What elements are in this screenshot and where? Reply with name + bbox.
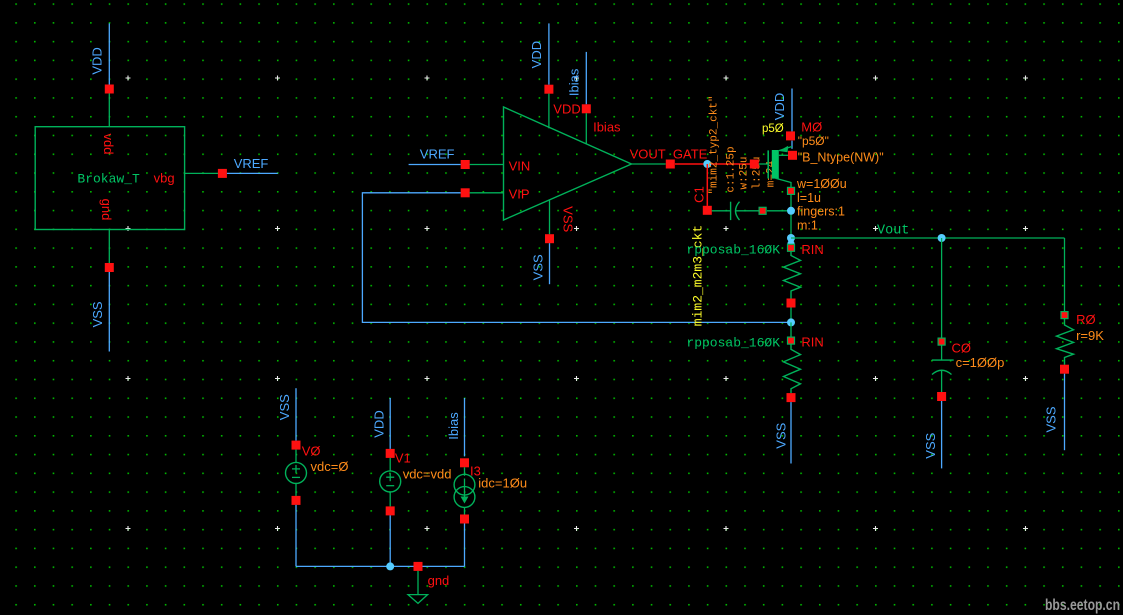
wire Ibias pin to triangle	[585, 113, 587, 144]
svg-text:VDD: VDD	[371, 410, 386, 437]
pin square vbg	[218, 169, 227, 178]
value label vdc=0	[311, 459, 349, 474]
wire VIN stub	[470, 164, 504, 166]
svg-text:VSS: VSS	[277, 394, 292, 420]
transistor M0 PMOS p50	[759, 131, 795, 187]
current source I3	[454, 458, 475, 523]
designator V0	[302, 444, 321, 459]
net label VREF at op-amp input	[420, 146, 455, 161]
wire VSS below R0	[1064, 374, 1066, 451]
wire VREF net	[227, 172, 278, 174]
svg-text:VREF: VREF	[234, 156, 269, 171]
wire GATE net (red)	[675, 163, 750, 165]
junction drain/C1	[787, 207, 795, 215]
svg-text:vdc=vdd: vdc=vdd	[403, 467, 452, 482]
svg-text:rpposab_16ØK: rpposab_16ØK	[686, 335, 780, 350]
pin square VDD of Brokaw_T	[105, 85, 114, 94]
net label Vout	[877, 224, 909, 239]
net label VSS (R0)	[1044, 406, 1059, 432]
svg-text:Ibias: Ibias	[566, 68, 581, 96]
net label VSS (V0)	[277, 394, 292, 420]
resistor R1 rpposab_160K	[784, 244, 801, 322]
svg-text:VSS: VSS	[530, 254, 545, 280]
wire vbg to pin	[185, 172, 218, 174]
parameter labels M0	[796, 177, 847, 232]
watermark bbs.eetop.cn	[1045, 597, 1120, 614]
op-amp U0 triangle	[504, 107, 632, 220]
svg-text:mim2_m2m3_ckt: mim2_m2m3_ckt	[691, 225, 706, 326]
svg-text:RIN: RIN	[801, 242, 823, 257]
svg-text:"p5Ø": "p5Ø"	[798, 134, 829, 148]
pin square gnd rail	[414, 562, 423, 571]
wire Vout down to R0	[1064, 238, 1066, 312]
svg-text:VDD: VDD	[553, 102, 580, 117]
net label VREF	[234, 156, 269, 171]
wire Ibias op-amp	[585, 52, 587, 104]
wire pin to Brokaw_T box	[108, 93, 110, 126]
svg-text:VOUT: VOUT	[630, 147, 666, 162]
pin square drain M0 (open)	[788, 187, 795, 194]
junction Vout at drain	[787, 234, 795, 247]
svg-text:VSS: VSS	[774, 422, 789, 448]
svg-text:Ibias: Ibias	[446, 412, 461, 440]
wire VDD pin to triangle	[548, 94, 550, 129]
net label Ibias (I3)	[446, 412, 461, 440]
svg-text:Vout: Vout	[877, 224, 909, 239]
pin square VSS op-amp	[545, 234, 554, 243]
svg-text:VSS: VSS	[560, 206, 575, 232]
pin square VIP	[461, 188, 470, 197]
designator M0 / p50 labels	[762, 120, 884, 165]
wire gnd of Brokaw_T	[108, 230, 110, 264]
svg-text:Ibias: Ibias	[593, 120, 621, 135]
net label VDD (V1)	[371, 410, 386, 437]
wire VIP feedback loop	[362, 193, 791, 323]
pin name vbg	[154, 171, 175, 186]
wire C1 to drain node	[767, 210, 789, 212]
wire op-amp output	[632, 163, 666, 165]
svg-text:VDD: VDD	[529, 41, 544, 68]
pin name VSS red (rotated)	[560, 206, 575, 232]
svg-text:V1: V1	[395, 451, 411, 466]
wire VSS net op-amp	[549, 243, 551, 284]
wire drain to Vout node	[790, 194, 792, 244]
block Brokaw_T bandgap box	[35, 127, 184, 230]
svg-text:c=1ØØp: c=1ØØp	[956, 355, 1005, 370]
cell label rpposab_160K (R2)	[686, 335, 780, 350]
svg-text:rpposab_16ØK: rpposab_16ØK	[686, 243, 780, 258]
designator I3	[470, 463, 481, 478]
pin name Ibias red	[593, 120, 621, 135]
value label l:25u (rotated)	[752, 156, 764, 189]
pin square VOUT	[666, 160, 675, 169]
wire VDD op-amp	[548, 23, 550, 84]
pin square gnd of Brokaw_T	[105, 263, 114, 272]
net label gnd	[428, 573, 450, 588]
svg-text:Brokaw_T: Brokaw_T	[77, 172, 140, 187]
value label c=100p	[956, 355, 1005, 370]
svg-text:VREF: VREF	[420, 146, 455, 161]
designator V1	[395, 451, 411, 466]
net label VSS (C0)	[923, 432, 938, 458]
svg-text:VDD: VDD	[90, 47, 105, 74]
pin square C0 top	[938, 338, 945, 345]
svg-text:"mim2_typ2_ckt": "mim2_typ2_ckt"	[708, 95, 720, 194]
svg-text:w:25u: w:25u	[738, 156, 750, 189]
wire VSS above V0	[295, 388, 297, 440]
svg-text:gnd: gnd	[99, 199, 114, 221]
svg-text:c:1.25p: c:1.25p	[726, 146, 738, 192]
value label idc=10u	[478, 476, 527, 491]
junction Vout at C0	[938, 234, 946, 242]
svg-text:VDD: VDD	[772, 93, 787, 120]
net label VSS (Brokaw)	[90, 301, 105, 327]
wire VDD above M0	[791, 89, 793, 132]
wire VSS op-amp to pin	[549, 200, 551, 234]
value label r=9K	[1076, 328, 1104, 343]
ground symbol gnd	[408, 571, 428, 604]
wire VSS below Brokaw_T	[108, 272, 110, 352]
wire VREF to VIN	[409, 164, 461, 166]
net label VSS (R2)	[774, 422, 789, 448]
pin square gate M0	[750, 160, 759, 169]
pin name gnd (rotated)	[99, 199, 114, 221]
junction rail V1	[386, 562, 394, 570]
voltage source V1	[380, 449, 401, 516]
svg-text:RIN: RIN	[801, 334, 823, 349]
wire V1 to rail	[389, 515, 391, 566]
svg-text:l=1u: l=1u	[797, 191, 821, 205]
wire V0 to rail	[295, 505, 297, 567]
designator C0	[952, 340, 972, 355]
svg-text:C1: C1	[691, 186, 706, 203]
net label VDD (op-amp)	[529, 41, 544, 68]
svg-text:GATE: GATE	[673, 147, 708, 162]
wire Ibias above I3	[464, 398, 466, 456]
resistor R2 rpposab_160K	[784, 322, 801, 402]
pin square VDD op-amp	[544, 85, 553, 94]
svg-text:VSS: VSS	[923, 432, 938, 458]
svg-text:VSS: VSS	[1044, 406, 1059, 432]
wire VDD above V1	[389, 398, 391, 449]
value label vdc=vdd	[403, 467, 452, 482]
svg-text:VØ: VØ	[302, 444, 321, 459]
svg-text:r=9K: r=9K	[1076, 328, 1104, 343]
value label "mim2_typ2_ckt" (rotated)	[708, 95, 720, 194]
wire VSS below R2	[790, 402, 792, 463]
wire I3 to rail	[464, 524, 466, 567]
pin square Ibias	[582, 104, 591, 113]
value label m=24 (rotated)	[766, 160, 778, 187]
value label c:1.25p (rotated)	[726, 146, 738, 192]
svg-text:VIP: VIP	[509, 187, 530, 202]
wire ground rail	[296, 565, 465, 567]
wire VSS below C0	[941, 401, 943, 468]
svg-text:"B_Ntype(NW)": "B_Ntype(NW)"	[798, 151, 884, 165]
pin name RIN (R1)	[801, 242, 823, 257]
net label VDD (M0)	[772, 93, 787, 120]
value label w:25u (rotated)	[738, 156, 750, 189]
svg-text:gnd: gnd	[428, 573, 450, 588]
svg-text:m:1: m:1	[797, 218, 818, 232]
cell label mim2_m2m3_ckt (rotated yellow)	[691, 225, 706, 326]
designator R0	[1076, 312, 1096, 327]
net label VSS (op-amp)	[530, 254, 545, 280]
svg-text:vbg: vbg	[154, 171, 175, 186]
svg-text:w=1ØØu: w=1ØØu	[796, 177, 847, 191]
pin square bulk M0	[788, 151, 797, 160]
pin name VDD red	[553, 102, 580, 117]
capacitor C0	[932, 345, 954, 401]
voltage source V0	[286, 441, 307, 505]
capacitor C1	[703, 202, 759, 220]
svg-text:RØ: RØ	[1076, 312, 1096, 327]
svg-text:vdc=Ø: vdc=Ø	[311, 459, 349, 474]
pin square C1 right	[759, 207, 766, 214]
svg-text:bbs.eetop.cn: bbs.eetop.cn	[1045, 597, 1120, 614]
wire Vout down to C0	[941, 238, 943, 338]
junction GATE node	[703, 160, 711, 168]
wire Vout horizontal	[791, 237, 1065, 239]
pin square VIN	[461, 160, 470, 169]
svg-text:idc=1Øu: idc=1Øu	[478, 476, 527, 491]
pin name RIN (R2)	[801, 334, 823, 349]
pin name vdd (rotated)	[101, 134, 116, 155]
resistor R0	[1057, 312, 1074, 374]
wire VIP stub	[470, 192, 504, 194]
net label VOUT GATE	[630, 147, 708, 162]
svg-text:vdd: vdd	[101, 134, 116, 155]
junction feedback node	[787, 318, 795, 326]
svg-text:p5Ø: p5Ø	[762, 123, 784, 135]
wire VDD top-left	[108, 23, 110, 89]
svg-text:MØ: MØ	[801, 120, 822, 135]
svg-text:CØ: CØ	[952, 340, 972, 355]
svg-text:VSS: VSS	[90, 301, 105, 327]
net label VDD (Brokaw supply)	[90, 47, 105, 74]
svg-text:VIN: VIN	[509, 159, 531, 174]
designator C1 (rotated)	[691, 186, 706, 203]
cell label rpposab_160K (R1)	[686, 243, 780, 258]
svg-text:fingers:1: fingers:1	[797, 205, 845, 219]
wire GATE down to C1 (red)	[706, 164, 708, 206]
net label Ibias (op-amp)	[566, 68, 581, 96]
